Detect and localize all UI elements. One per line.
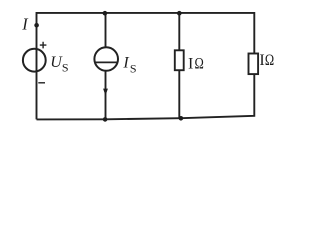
svg-text:Ω: Ω [195,56,204,73]
svg-text:I: I [122,55,129,72]
node dot bottom of branch 3 [179,116,184,121]
svg-text:S: S [62,61,69,75]
current source IS circle [94,47,118,71]
plus sign of US [40,42,47,49]
svg-text:I: I [188,56,193,73]
node dot bottom of IS branch [103,117,108,122]
minus sign of US [38,82,45,84]
node dot top of IS branch [103,11,108,16]
current source arrow head [103,89,108,96]
node dot top of branch 3 [177,11,182,16]
svg-text:Ω: Ω [265,52,274,69]
resistor R1 box (1 ohm, branch 3) [175,50,184,70]
node I dot [34,23,39,28]
voltage source US circle [23,49,46,72]
svg-text:S: S [130,62,137,76]
wire current source branch [105,13,107,119]
resistor R2 box (1 ohm, right edge) [249,54,259,75]
wire outer loop (top, left, right, bottom) [37,13,255,120]
wire resistor branch 3 [178,13,180,118]
current source IS bar [95,61,118,63]
svg-text:I: I [21,15,29,34]
